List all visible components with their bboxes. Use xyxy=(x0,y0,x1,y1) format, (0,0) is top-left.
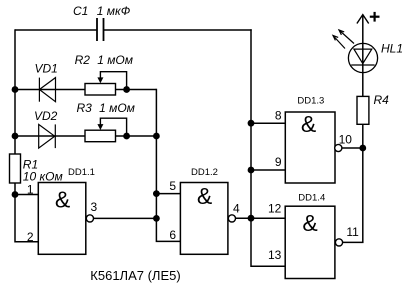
svg-text:DD1.2: DD1.2 xyxy=(191,167,218,178)
resistor R2 (trimmer body) xyxy=(85,84,116,96)
wire left rail lower xyxy=(15,183,38,242)
svg-text:&: & xyxy=(302,210,317,236)
op-amp/gate DD1.1 box xyxy=(38,183,86,255)
wire middle bus vertical xyxy=(156,89,180,242)
resistor R4 xyxy=(357,96,369,124)
wire R4 bottom xyxy=(362,124,364,148)
svg-text:3: 3 xyxy=(91,200,98,214)
LED HL1 triangle xyxy=(354,49,372,64)
svg-text:VD1: VD1 xyxy=(35,62,58,76)
wire pin 5 xyxy=(156,193,180,195)
svg-text:DD1.3: DD1.3 xyxy=(297,96,324,107)
svg-text:К561ЛА7 (ЛЕ5): К561ЛА7 (ЛЕ5) xyxy=(90,268,180,283)
svg-text:5: 5 xyxy=(169,179,176,193)
resistor R1 xyxy=(10,154,21,183)
svg-text:R2: R2 xyxy=(75,53,91,67)
gate DD1.2 output bubble pin 4 xyxy=(228,215,235,222)
wire R2 right to bus xyxy=(116,89,157,91)
svg-text:HL1: HL1 xyxy=(381,42,403,56)
wire LED anode column xyxy=(362,15,364,97)
LED emission arrow 2 xyxy=(333,36,345,49)
svg-text:&: & xyxy=(197,183,212,209)
LED HL1 circle xyxy=(348,43,377,72)
resistor R3 (trimmer body) xyxy=(85,130,116,142)
LED HL1 cathode bar xyxy=(351,64,374,66)
svg-text:8: 8 xyxy=(275,109,282,123)
svg-text:&: & xyxy=(55,187,70,213)
resistor R3 wiper xyxy=(100,118,126,136)
svg-text:11: 11 xyxy=(346,225,359,239)
wire R3 right to bus xyxy=(116,135,157,137)
wire left rail upper xyxy=(14,29,16,154)
plus supply arrowhead xyxy=(357,15,369,24)
svg-text:13: 13 xyxy=(268,248,282,262)
svg-text:DD1.1: DD1.1 xyxy=(68,167,95,178)
wire pin 1 xyxy=(15,194,38,196)
wire pin 3 output xyxy=(94,217,157,219)
node junction R4 pin10 xyxy=(359,145,366,152)
wire VD1 row xyxy=(15,89,85,91)
resistor R2 wiper xyxy=(100,72,126,90)
svg-text:VD2: VD2 xyxy=(34,109,58,123)
svg-text:10 кОм: 10 кОм xyxy=(23,170,63,184)
svg-text:1: 1 xyxy=(27,183,34,197)
wire pin 9 xyxy=(251,169,285,171)
wire right bus vertical xyxy=(251,29,285,266)
svg-text:R3: R3 xyxy=(77,101,93,115)
svg-text:&: & xyxy=(301,111,316,137)
svg-text:12: 12 xyxy=(268,202,282,216)
LED emission arrow 1 xyxy=(339,30,354,44)
svg-text:R4: R4 xyxy=(374,93,390,107)
node junction bus pin3 xyxy=(153,215,160,222)
gate DD1.3 output bubble pin 10 xyxy=(335,144,342,151)
svg-text:1 мкФ: 1 мкФ xyxy=(97,4,131,18)
diode VD2 xyxy=(39,124,56,148)
wire pin 10 output xyxy=(342,147,363,149)
node junction right bus pin4 xyxy=(248,215,255,222)
svg-text:10: 10 xyxy=(339,133,353,147)
wire pin 8 xyxy=(251,122,285,124)
wire top horizontal left of C1 xyxy=(15,29,97,31)
op-amp/gate DD1.4 box xyxy=(285,206,335,278)
wire top horizontal right of C1 xyxy=(104,29,252,31)
svg-text:4: 4 xyxy=(233,202,240,216)
node junction bus R3 row xyxy=(153,133,160,140)
plus sign xyxy=(370,12,380,22)
wire pin 11 output xyxy=(343,148,363,242)
node junction left rail pin1 xyxy=(12,191,19,198)
capacitor C1 xyxy=(97,18,104,41)
node junction left rail VD2 xyxy=(12,133,19,140)
gate DD1.4 output bubble pin 11 xyxy=(335,239,342,246)
node junction R2 wiper xyxy=(123,86,130,93)
op-amp/gate DD1.2 box xyxy=(180,183,228,255)
svg-text:6: 6 xyxy=(169,228,176,242)
wire VD2 row xyxy=(15,135,85,137)
svg-text:DD1.4: DD1.4 xyxy=(298,193,325,204)
node junction right bus pin9 xyxy=(248,167,255,174)
node junction bus pin5 xyxy=(153,190,160,197)
diode VD1 xyxy=(39,78,55,102)
svg-text:9: 9 xyxy=(275,155,282,169)
svg-text:1 мОм: 1 мОм xyxy=(99,101,135,115)
svg-text:1 мОм: 1 мОм xyxy=(97,53,133,67)
node junction right bus pin8 xyxy=(248,120,255,127)
node junction left rail VD1 xyxy=(12,86,19,93)
svg-text:C1: C1 xyxy=(73,4,88,18)
node junction R3 wiper xyxy=(123,133,130,140)
op-amp/gate DD1.3 box xyxy=(285,112,335,183)
svg-text:2: 2 xyxy=(27,230,34,244)
gate DD1.1 output bubble pin 3 xyxy=(86,215,93,222)
wire pin 4 to pin 12 xyxy=(236,217,286,219)
